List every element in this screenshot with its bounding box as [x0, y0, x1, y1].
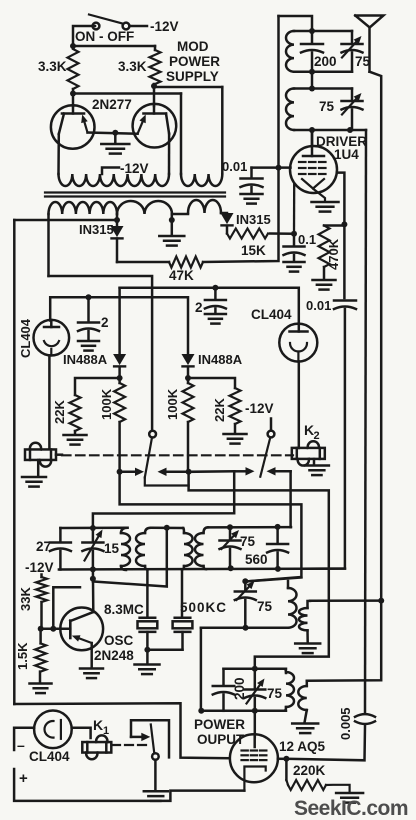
transistor Q3 2N248 OSC [60, 608, 103, 651]
svg-text:75: 75 [319, 99, 335, 114]
svg-text:8.3MC: 8.3MC [104, 602, 144, 617]
wire base row [41, 627, 71, 630]
label CL404 bottom [29, 749, 70, 764]
resistor R2 3.3K [150, 46, 161, 84]
label OSC [104, 633, 134, 648]
node PA bottom [252, 708, 258, 714]
svg-text:560: 560 [245, 552, 268, 567]
label 2 left [101, 315, 109, 330]
node emitter junction [112, 130, 118, 136]
label 2 right [195, 300, 203, 315]
wire T1 secondary to crystal [146, 570, 149, 618]
wire relay stub to dashes [56, 453, 62, 456]
label -12V center tap [120, 161, 149, 176]
label 22K right [212, 398, 227, 422]
svg-text:500KC: 500KC [180, 600, 227, 615]
wire secondary left end down [47, 214, 50, 276]
node tank1 bottom [309, 69, 315, 75]
svg-text:–: – [17, 737, 25, 753]
K1 contact bracket [131, 720, 169, 757]
svg-text:K: K [93, 717, 103, 733]
svg-text:2: 2 [101, 315, 109, 330]
label IN488A left [63, 352, 108, 367]
label K2 [304, 422, 320, 442]
wire Q2 collector to transformer [168, 134, 171, 174]
ground 220K [336, 793, 363, 803]
label IN488A right [198, 352, 243, 367]
node T1 feedback [164, 525, 170, 531]
resistor R11 1.5K [35, 629, 46, 683]
label IN315 right [236, 212, 271, 227]
label 2N248 [94, 648, 134, 663]
ground 22K right [224, 424, 247, 444]
wire to 22K right [188, 378, 235, 388]
wire diode to node [118, 367, 121, 378]
node tank1 top [309, 28, 315, 34]
node left string [117, 375, 123, 381]
svg-text:470K: 470K [326, 238, 341, 270]
svg-text:POWER: POWER [194, 717, 245, 732]
label 22K left [52, 400, 67, 424]
wire emitter down [90, 643, 93, 668]
IF transformer left coil [288, 581, 296, 628]
PA transformer primary [284, 669, 294, 711]
svg-text:22K: 22K [212, 398, 227, 422]
wire switch to -12V label [130, 25, 148, 28]
relay K2 coil [292, 441, 325, 465]
label 15 [104, 541, 120, 556]
svg-text:1U4: 1U4 [334, 147, 359, 162]
wire diode to 47K [116, 239, 119, 263]
wire IF coil ground [306, 630, 309, 642]
lower tank top rail [245, 578, 301, 582]
wire IF right coil to antenna rail [310, 599, 381, 602]
wire left rail to diode tap [14, 219, 117, 222]
capacitor C3 0.01 series [334, 301, 356, 310]
wire Y2 CL404 line [50, 297, 188, 354]
node 560 top [275, 524, 281, 530]
label plus [19, 770, 28, 787]
label minus [17, 737, 25, 753]
label 1.5K [15, 642, 30, 670]
lower tank bottom rail [201, 626, 288, 629]
K1 blade [151, 725, 155, 754]
svg-text:75: 75 [240, 534, 256, 549]
node trimmer top [242, 578, 248, 584]
transformer T-mod core [45, 193, 225, 197]
svg-text:ON - OFF: ON - OFF [75, 29, 134, 44]
label 47K [169, 268, 194, 283]
svg-text:3.3K: 3.3K [38, 59, 67, 74]
transformer T1 primary [121, 528, 130, 570]
node 75 bottom [228, 565, 234, 571]
B+ rail right [365, 130, 366, 712]
svg-text:33K: 33K [18, 587, 33, 611]
transistor Q2 2N277 right [133, 104, 177, 148]
label K1 [93, 717, 109, 737]
svg-text:220K: 220K [293, 763, 326, 778]
resistor R6 22K left [70, 395, 81, 431]
ground PA secondary [292, 724, 318, 734]
label 100K left [99, 388, 114, 420]
label 75 tank2 [319, 99, 335, 114]
svg-text:2N277: 2N277 [92, 97, 132, 112]
contact arrow L-right [158, 468, 189, 476]
wire W1 transmit [189, 472, 329, 669]
ground 2-cap left [78, 341, 99, 351]
svg-text:15: 15 [104, 541, 120, 556]
switch blade pivot right [268, 431, 275, 438]
IF transformer right coil [299, 601, 310, 631]
node junction top of 3.3K resistors [70, 43, 155, 49]
label CL404 left [18, 318, 33, 358]
wire 0.005 to screen node [286, 726, 365, 760]
ground 470K [313, 267, 336, 290]
left rail vertical [13, 220, 16, 704]
tank1 bottom rail [294, 70, 352, 73]
capacitor C15 200 [213, 669, 235, 711]
variable capacitor C14 75 trimmer [235, 581, 256, 628]
wire to 22K left [75, 378, 120, 395]
label 470K [326, 238, 341, 270]
wire plate lead [254, 711, 257, 737]
node secondary ground tap [169, 214, 175, 235]
svg-text:CL404: CL404 [29, 749, 70, 764]
ground K2 [305, 459, 329, 475]
tank bottom -12V rail [59, 567, 345, 570]
label 75 tank1 [355, 54, 371, 69]
tank1 top rail [294, 30, 352, 33]
svg-text:0.005: 0.005 [338, 707, 353, 740]
wire tank rail up to contact [290, 471, 292, 527]
contact arrow R-left [234, 467, 254, 475]
wire Y1 switch line top [120, 288, 299, 324]
svg-text:200: 200 [314, 54, 337, 69]
svg-text:22K: 22K [52, 400, 67, 424]
wire K1 pivot ground [154, 760, 157, 791]
wire 220K lead [285, 759, 288, 780]
capacitor C10 27 [50, 528, 71, 570]
wire 47K to grid rail [203, 16, 279, 262]
node screen/470K junction [341, 221, 347, 227]
svg-text:0.01: 0.01 [222, 159, 247, 174]
svg-text:1.5K: 1.5K [15, 642, 30, 670]
label 500KC [180, 600, 227, 615]
capacitor C-grid 0.01 [241, 168, 263, 193]
capacitor C4 200 [301, 31, 323, 72]
crystal X1 8.3MC [138, 618, 158, 632]
node PA top [252, 666, 258, 672]
wire collector [92, 569, 95, 612]
label 220K [293, 763, 326, 778]
diode D1 IN315 [111, 226, 124, 238]
tube V2 12AQ5 [230, 734, 278, 790]
label POWER [194, 717, 245, 732]
crystal X2 500KC [173, 618, 193, 632]
label 100K right [165, 388, 180, 420]
watermark SeekIC.com [294, 797, 408, 820]
variable capacitor C16 75 PA [244, 669, 265, 711]
node secondary tap [114, 214, 120, 226]
node 0.1 junction [291, 231, 297, 237]
svg-text:47K: 47K [169, 268, 194, 283]
ground IF coil [295, 644, 320, 654]
tube V1 DRIVER 1U4 [290, 146, 337, 193]
svg-text:100K: 100K [165, 388, 180, 420]
relay K1 coil [82, 735, 111, 759]
wire cathode [314, 189, 326, 201]
node PA bottom left [198, 708, 204, 714]
wire plate [311, 130, 314, 146]
switch blade right [260, 437, 270, 476]
inductor L2 [286, 89, 294, 131]
node contact L1 [117, 469, 123, 475]
label -12V switch [245, 401, 274, 416]
resistor R1 3.3K [68, 49, 79, 89]
wire T2 top to 75 [208, 526, 291, 529]
node 560 bottom [275, 566, 281, 572]
node 2-cap right [212, 285, 218, 291]
transformer T-mod primary right winding [181, 174, 222, 186]
label 33K [18, 587, 33, 611]
node base left + crossover wire to feedback winding [70, 89, 181, 174]
K1 blade pivot [152, 753, 159, 760]
svg-text:75: 75 [355, 54, 371, 69]
ground crystals [135, 650, 160, 674]
wire crystal bottoms [147, 632, 182, 650]
variable capacitor C6 75 [342, 89, 363, 131]
node rail 15cap [90, 566, 96, 572]
resistor R9 100K right [183, 378, 194, 472]
transformer T2 secondary [195, 527, 208, 569]
wire receive line [120, 472, 302, 582]
antenna [355, 16, 383, 72]
resistor R8 22K right [230, 388, 241, 424]
svg-text:0.1: 0.1 [298, 232, 316, 247]
node grid junction [276, 165, 282, 171]
ground 2-cap right [205, 314, 226, 324]
node crystal ground [144, 647, 150, 653]
K1 contact arrow [131, 733, 150, 741]
label 3.3K left [38, 59, 67, 74]
label 75 lower [257, 599, 273, 614]
svg-text:12 AQ5: 12 AQ5 [279, 739, 326, 754]
wire feed to tank 1 [279, 16, 313, 31]
node tank2 top [309, 86, 315, 92]
node base row feedback [50, 626, 56, 632]
svg-text:0.01: 0.01 [306, 298, 331, 313]
label 0.005 [338, 707, 353, 740]
wire from switch to left node [73, 26, 95, 46]
wire center tap [102, 168, 119, 175]
label 27 [36, 539, 51, 554]
tank2 bottom rail [294, 129, 366, 132]
label 0.01 grid cap [222, 159, 247, 174]
svg-text:IN488A: IN488A [198, 352, 243, 367]
capacitor C13 560 [267, 527, 288, 570]
transformer T2 primary [182, 528, 193, 618]
wire -12V bus bottom [14, 703, 229, 758]
svg-text:-12V: -12V [245, 401, 274, 416]
wire switch line upper [118, 288, 121, 354]
neon lamp CL404 left [34, 320, 70, 356]
node right string [185, 375, 191, 381]
ground driver cathode [312, 202, 339, 212]
capacitor C8 2 [205, 288, 226, 313]
capacitor C2 0.1 [284, 234, 305, 261]
node base row 33K [38, 626, 44, 632]
ground secondary center [159, 236, 184, 246]
wire tank down to PA tank [200, 628, 203, 711]
wire antenna jog [370, 72, 382, 601]
label 200 [314, 54, 337, 69]
dashed line K1 [112, 744, 149, 746]
contact arrow L-left [120, 468, 144, 476]
label -12V osc rail [25, 560, 54, 575]
label IN315 left [79, 222, 114, 237]
node trimmer bottom [243, 625, 249, 631]
resistor R12 220K [286, 780, 349, 793]
label MOD POWER SUPPLY [166, 39, 220, 84]
capacitor C7 0.005 series [355, 714, 375, 724]
label 2N277 [92, 97, 132, 112]
resistor R5 470K [319, 226, 330, 268]
dashed actuation line [62, 454, 293, 456]
node contact L2 [186, 469, 192, 475]
wire feedback down [93, 528, 167, 587]
node base right + wire to primary right end [151, 83, 222, 174]
wire to 470K [324, 224, 344, 227]
svg-text:+: + [19, 770, 28, 787]
resistor R3 47K [169, 257, 203, 268]
svg-text:MOD: MOD [177, 39, 209, 54]
diode D4 IN488A right [182, 354, 195, 366]
ground 22K left [64, 431, 87, 445]
svg-text:2N248: 2N248 [94, 648, 134, 663]
ground below emitters [101, 133, 129, 154]
inductor L1 [286, 31, 294, 72]
wire screen 12AQ5 [278, 758, 287, 761]
wire Q1 collector to transformer [57, 134, 60, 174]
neon lamp CL404 right [279, 324, 317, 362]
wire CL404 right to K2 [298, 362, 301, 449]
node tank2 bottom [309, 127, 353, 133]
label 200 PA [232, 677, 247, 700]
label -12V top [150, 19, 179, 34]
switch blade left [145, 437, 189, 485]
wire 47K left [117, 261, 169, 264]
transformer T-mod primary left winding [59, 174, 170, 186]
PA transformer secondary [298, 681, 307, 723]
wire 15K to 0.1 node [270, 232, 294, 235]
osc tank top rail [60, 526, 127, 529]
node antenna rail - IF wire [378, 598, 384, 604]
svg-text:15K: 15K [241, 243, 266, 258]
label 0.1 [298, 232, 316, 247]
svg-text:-12V: -12V [120, 161, 149, 176]
ground osc emitter [80, 669, 103, 679]
node screen [283, 756, 289, 762]
resistor R4 15K [227, 229, 268, 239]
variable capacitor C5 75 [342, 31, 363, 72]
svg-text:-12V: -12V [25, 560, 54, 575]
label 3.3K right [118, 59, 147, 74]
PA tank top rail [224, 668, 287, 671]
ground K1 [144, 791, 168, 801]
svg-text:100K: 100K [99, 388, 114, 420]
label CL404 right [251, 307, 292, 322]
wire feedback riser [53, 587, 80, 628]
label 75 PA [267, 686, 283, 701]
wire R contact to tank rail [289, 471, 292, 527]
label DRIVER [316, 134, 367, 149]
label 15K [241, 243, 266, 258]
tank2 top rail [294, 87, 352, 90]
variable capacitor C11 15 [82, 528, 103, 570]
svg-text:OSC: OSC [104, 633, 134, 648]
label ON - OFF [75, 29, 134, 44]
ground relay left [22, 460, 46, 487]
wire screen rail to tank bottom rail [301, 309, 345, 569]
wire plate feed [311, 130, 314, 146]
wire grid [252, 166, 291, 169]
ground 1.5K [30, 684, 52, 694]
label 12AQ5 [279, 739, 326, 754]
relay K-ant coil [25, 443, 56, 467]
wire T1 top link [151, 526, 183, 529]
wire CL404 left bottom [48, 355, 51, 449]
svg-text:CL404: CL404 [251, 307, 292, 322]
transistor Q1 2N277 left [51, 105, 95, 149]
wire driver filament to 0.1 node [293, 184, 296, 234]
ground 0.1 cap [284, 262, 305, 272]
wire CL404 to K1 [72, 728, 91, 738]
svg-text:POWER: POWER [169, 54, 220, 69]
wire common emitters [88, 133, 138, 134]
svg-text:75: 75 [267, 686, 283, 701]
svg-text:2: 2 [195, 300, 203, 315]
battery wire CL404 left [14, 728, 244, 801]
node 2-cap left [86, 294, 92, 300]
wire -12V stub [270, 419, 273, 431]
wire osc tank to R contact [93, 471, 234, 528]
neon lamp CL404 bottom [34, 711, 72, 749]
contact arrow R-right [267, 467, 291, 475]
svg-text:IN315: IN315 [79, 222, 114, 237]
diode D2 IN315 right [221, 213, 234, 234]
label 560 [245, 552, 268, 567]
wire screen right [337, 173, 344, 298]
wire secondary tap to blade [49, 276, 153, 431]
svg-text:SUPPLY: SUPPLY [166, 69, 219, 84]
on-off switch S1 [89, 15, 129, 30]
label OUPUT [197, 732, 245, 747]
resistor R10 33K [36, 575, 47, 629]
svg-text:75: 75 [257, 599, 273, 614]
svg-text:IN315: IN315 [236, 212, 271, 227]
label 0.01 series cap [306, 298, 331, 313]
svg-text:CL404: CL404 [18, 318, 33, 358]
wire tank1-tank2 [311, 72, 314, 89]
svg-text:-12V: -12V [150, 19, 179, 34]
node collector tie [90, 576, 96, 582]
label 1U4 [334, 147, 359, 162]
transformer T1 secondary [136, 528, 151, 570]
svg-text:IN488A: IN488A [63, 352, 108, 367]
PA tank bottom rail [201, 710, 286, 713]
ground grid cap [241, 194, 263, 204]
diode D3 IN488A left [113, 354, 126, 366]
